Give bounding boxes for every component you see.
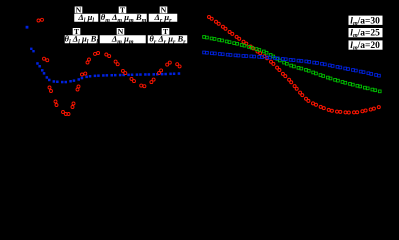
- box row2 right: theta_r Delta_r mu_r B_r: [148, 34, 188, 46]
- right plot: green squares l/a=25: [203, 36, 381, 93]
- left plot: blue square curve: [36, 62, 180, 83]
- left plot: blue isolated marker top: [26, 26, 29, 29]
- left plot: red pair mid: [43, 57, 49, 62]
- tab N row1 left: [75, 6, 83, 15]
- box row2 middle: Delta_m mu_m: [100, 34, 147, 46]
- tab T row2 left: [73, 27, 81, 36]
- box row1 right: Delta_r mu_r: [149, 12, 178, 24]
- left plot: red pair top: [37, 18, 44, 22]
- left plot: red circles deep dip: [48, 85, 80, 116]
- box row1 left: Delta_l mu_l: [74, 12, 99, 24]
- legend entry l_m/a=25: [349, 28, 383, 39]
- legend entry l_m/a=30: [349, 16, 383, 27]
- tab T row1 middle: [119, 6, 127, 15]
- left plot: red pair before peak: [81, 72, 87, 76]
- box row1 middle: theta_m Delta_m mu_m B_m: [100, 12, 147, 24]
- box row2 left: theta_l Delta_l mu_l B_l: [64, 34, 98, 46]
- left plot: blue pair upper: [30, 48, 35, 53]
- tab T row2 right: [162, 27, 170, 36]
- legend entry l_m/a=20: [349, 40, 383, 51]
- right plot: blue squares l/a=20: [203, 51, 381, 77]
- right plot: red circles l/a=30: [208, 16, 381, 115]
- tab N row1 right: [160, 6, 168, 15]
- left plot: red circle oscillation: [86, 52, 181, 88]
- tab N row2 middle: [117, 27, 125, 36]
